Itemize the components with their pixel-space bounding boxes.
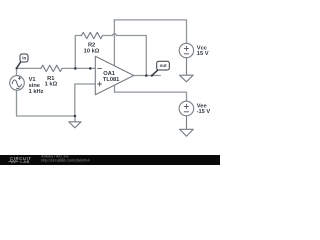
wire: Vee bottom to ground GND3 <box>186 116 188 130</box>
voltage source Vcc circle <box>179 43 193 57</box>
op-amp OA1 plus input marker <box>98 82 102 86</box>
wire: node in to R1 left <box>17 67 42 69</box>
wire: R2 right with hop over supply wire, to feedback corner, down to output <box>103 34 147 76</box>
svg-text:http://circuitlab.com/c6eh0h4: http://circuitlab.com/c6eh0h4 <box>41 159 89 163</box>
wire: branch up to R2 left <box>75 36 81 69</box>
node flag out stem <box>152 70 158 75</box>
node flag in stem <box>17 62 21 68</box>
node flag out box <box>157 61 170 70</box>
node flag in anchor dot <box>16 67 18 69</box>
watermark bar <box>0 155 220 165</box>
node flag in box <box>20 54 28 62</box>
ground GND2 <box>180 75 194 82</box>
svg-text:LAB: LAB <box>20 160 29 164</box>
voltage source V1 sine symbol <box>12 80 21 87</box>
wire: V1 bottom stub and bottom ground wire <box>17 90 76 116</box>
op-amp OA1 V- supply stub <box>114 85 116 92</box>
junction dot near op-amp inverting pin <box>89 67 92 70</box>
resistor R2 <box>82 32 103 38</box>
voltage source Vee plus marker <box>184 104 188 108</box>
junction dot at output feedback node <box>145 74 148 77</box>
svg-text:-15 V: -15 V <box>197 109 211 115</box>
svg-text:in: in <box>22 55 26 60</box>
junction dot at R2 branch on inverting input <box>74 67 77 70</box>
wire: non-inverting input to corner and down to ground wire <box>75 84 96 116</box>
wire: output <box>134 75 161 77</box>
wire: bottom supply rail to Vee <box>115 92 187 101</box>
op-amp OA1 minus input marker <box>98 67 102 69</box>
wire: R1 right to op-amp inverting input <box>62 67 95 69</box>
op-amp OA1 V+ supply stub <box>113 20 115 66</box>
resistor R1 <box>41 65 62 71</box>
voltage source Vcc plus marker <box>184 46 188 50</box>
svg-text:15 V: 15 V <box>197 51 209 57</box>
voltage source Vee minus marker <box>184 111 188 113</box>
svg-text:10 kΩ: 10 kΩ <box>84 48 100 54</box>
voltage source Vcc minus marker <box>184 53 188 55</box>
wire: Vcc bottom to ground GND2 <box>186 58 188 75</box>
svg-text:TL081: TL081 <box>103 77 119 83</box>
svg-text:1 kΩ: 1 kΩ <box>45 82 58 88</box>
voltage source V1 plus marker <box>18 77 21 80</box>
op-amp OA1 triangle <box>95 56 133 95</box>
voltage source Vee circle <box>179 101 194 116</box>
junction dot at ground node <box>74 115 77 118</box>
voltage source V1 circle <box>10 76 25 91</box>
svg-text:out: out <box>160 63 167 68</box>
wire: top supply rail to Vcc <box>114 20 186 43</box>
ground GND1 <box>69 122 81 128</box>
node flag out anchor dot <box>151 75 153 77</box>
ground GND3 <box>180 129 194 136</box>
wire: V1 top stub to node in <box>16 68 18 75</box>
ground GND1 stub <box>74 116 76 122</box>
voltage source V1 minus marker <box>16 87 19 89</box>
watermark logo resistor glyph <box>9 161 19 163</box>
svg-text:1 kHz: 1 kHz <box>29 89 44 95</box>
